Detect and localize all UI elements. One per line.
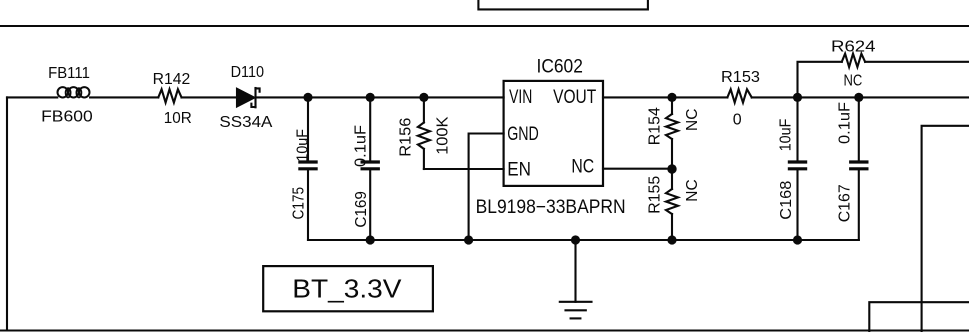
capacitor C167 bbox=[851, 97, 867, 240]
svg-text:0.1uF: 0.1uF bbox=[353, 125, 370, 167]
svg-text:10uF: 10uF bbox=[778, 118, 795, 151]
resistor R153 bbox=[727, 89, 751, 102]
wire: top horizontal bus line bbox=[0, 25, 969, 27]
svg-text:D110: D110 bbox=[231, 64, 265, 81]
svg-text:C168: C168 bbox=[778, 181, 795, 220]
wire: left vertical wire bbox=[6, 97, 8, 330]
capacitor C169 bbox=[362, 97, 378, 240]
svg-text:IC602: IC602 bbox=[537, 56, 583, 77]
wire: VOUT pin to R153 bbox=[603, 96, 727, 98]
node: junction VOUT/R154 bbox=[667, 93, 676, 102]
wire: R156 to EN pin bbox=[424, 168, 504, 170]
diode D110 (Schottky) bbox=[237, 88, 260, 107]
svg-text:BL9198−33BAPRN: BL9198−33BAPRN bbox=[476, 197, 626, 218]
svg-text:VOUT: VOUT bbox=[553, 87, 596, 108]
wire: GND pin to ground rail bbox=[469, 134, 504, 241]
resistor R155 bbox=[666, 169, 678, 240]
svg-text:FB111: FB111 bbox=[48, 65, 90, 82]
svg-text:C167: C167 bbox=[837, 184, 854, 222]
svg-text:R156: R156 bbox=[398, 117, 415, 156]
node: rail/C169 bbox=[366, 235, 375, 244]
svg-text:GND: GND bbox=[507, 124, 539, 145]
node: junction main/C167 bbox=[854, 93, 863, 102]
svg-text:FB600: FB600 bbox=[41, 108, 93, 125]
node: rail/ground symbol bbox=[571, 235, 580, 244]
svg-text:0: 0 bbox=[733, 111, 742, 128]
wire: D110 to VIN pin of IC602 bbox=[257, 96, 504, 98]
svg-text:10R: 10R bbox=[164, 110, 192, 127]
wire: bottom horizontal bus line bbox=[0, 329, 969, 331]
capacitor C175 bbox=[300, 97, 316, 240]
svg-text:100K: 100K bbox=[435, 116, 452, 155]
svg-text:SS34A: SS34A bbox=[219, 114, 272, 131]
svg-text:EN: EN bbox=[507, 160, 531, 181]
svg-text:R155: R155 bbox=[647, 176, 664, 214]
svg-text:VIN: VIN bbox=[509, 87, 532, 108]
wire: FB111 to R142 bbox=[90, 96, 158, 98]
resistor R624 bbox=[842, 54, 865, 67]
node: junction main/R156 bbox=[419, 93, 428, 102]
adjacent block outline (right, clipped) bbox=[922, 126, 969, 332]
resistor R156 bbox=[418, 97, 430, 169]
wire: R153 to right edge bbox=[752, 96, 969, 98]
wire: R624 to right edge bbox=[865, 61, 969, 63]
svg-text:R142: R142 bbox=[153, 71, 191, 88]
svg-text:NC: NC bbox=[571, 157, 594, 178]
node BT_3.3V power flag box bbox=[263, 266, 433, 311]
wire: R142 to D110 bbox=[182, 96, 238, 98]
node: rail/GND wire bbox=[464, 235, 473, 244]
svg-text:R624: R624 bbox=[831, 39, 876, 56]
svg-text:NC: NC bbox=[684, 179, 701, 201]
node: junction main/C169 bbox=[366, 93, 375, 102]
svg-text:0.1uF: 0.1uF bbox=[837, 102, 854, 144]
svg-text:NC: NC bbox=[684, 109, 701, 131]
svg-text:C175: C175 bbox=[290, 187, 307, 220]
wire: R624 branch bbox=[798, 62, 842, 98]
svg-text:R154: R154 bbox=[647, 107, 664, 145]
resistor R142 bbox=[158, 89, 181, 102]
adjacent block outline (top, clipped) bbox=[478, 0, 648, 9]
node: junction main/C175 bbox=[303, 93, 312, 102]
adjacent block outline (bottom right, clipped) bbox=[869, 302, 969, 332]
op-amp? no: regulator IC602 box bbox=[504, 81, 603, 186]
wire: NC pin to R154/R155 node bbox=[603, 168, 672, 170]
node: junction R154/R155/NC bbox=[667, 164, 676, 173]
wire: main net left segment bbox=[7, 96, 57, 98]
svg-text:BT_3.3V: BT_3.3V bbox=[292, 274, 402, 304]
node: junction main/R624/C168 bbox=[793, 93, 802, 102]
svg-text:C169: C169 bbox=[353, 191, 370, 228]
wire: ground rail bbox=[308, 239, 859, 241]
resistor R154 bbox=[666, 97, 678, 169]
node: rail/R155 bbox=[667, 235, 676, 244]
svg-text:R153: R153 bbox=[721, 69, 760, 86]
svg-text:NC: NC bbox=[844, 72, 863, 89]
svg-text:10uF: 10uF bbox=[295, 129, 312, 162]
capacitor C168 bbox=[789, 97, 805, 240]
ground bbox=[560, 240, 592, 318]
inductor FB111 bbox=[58, 87, 90, 97]
node: rail/C168 bbox=[793, 235, 802, 244]
